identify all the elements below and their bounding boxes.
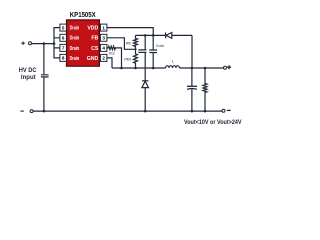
node dot CS at rail	[120, 67, 123, 70]
wire cap1 bottom lead	[144, 53, 146, 68]
svg-text:8: 8	[62, 56, 65, 61]
pin 2 box	[100, 54, 107, 61]
wire cap1 top lead	[144, 35, 146, 49]
pin 6 box	[60, 34, 67, 41]
wire stubs to left pins	[54, 28, 60, 58]
op-amp U1 chip body KP1505X	[67, 20, 100, 66]
svg-text:VDD: VDD	[87, 26, 98, 32]
inductor L	[166, 66, 180, 68]
capacitor C1	[138, 50, 146, 53]
pin 5 box	[60, 24, 67, 31]
node plus output terminal	[224, 65, 232, 69]
node minus output terminal	[222, 109, 231, 112]
pin 4 box	[100, 44, 107, 51]
svg-text:HV DC: HV DC	[19, 68, 37, 74]
svg-text:2: 2	[102, 56, 105, 61]
node dot FB junction	[134, 48, 136, 50]
pin 1 box	[100, 24, 107, 31]
svg-text:Rfb: Rfb	[126, 41, 131, 45]
resistor Rfb2	[134, 49, 138, 68]
wire switch rail y35.4	[135, 35, 192, 68]
svg-text:7: 7	[62, 46, 65, 51]
svg-text:5: 5	[62, 25, 65, 30]
node bottom bus junction dots	[43, 110, 46, 113]
svg-text:GND: GND	[87, 56, 99, 62]
svg-text:6: 6	[62, 36, 65, 41]
wire input vertical down	[43, 44, 45, 112]
svg-text:Drain: Drain	[70, 46, 80, 52]
node dot Rfb2 at rail	[134, 67, 137, 70]
svg-text:Cvdd: Cvdd	[156, 44, 164, 48]
svg-text:KP1505X: KP1505X	[70, 12, 96, 19]
svg-text:Drain: Drain	[70, 56, 80, 62]
node bus junction dot	[53, 42, 56, 45]
svg-text:Input: Input	[21, 75, 36, 81]
diode D2 freewheel	[142, 81, 149, 88]
pin 8 box	[60, 54, 67, 61]
node plus input terminal	[21, 42, 31, 45]
wire pin1 VDD to Cvdd	[107, 28, 154, 50]
wire output cap branch	[191, 68, 193, 111]
wire input plus to left bus	[32, 43, 54, 45]
wire left pin bus vertical	[53, 27, 55, 59]
wire D2 branch	[144, 68, 146, 111]
node dots on output rail	[191, 67, 194, 70]
svg-text:CS: CS	[91, 46, 99, 52]
label HV DC Input	[19, 68, 37, 81]
svg-text:Drain: Drain	[70, 26, 80, 32]
svg-text:3: 3	[102, 36, 105, 41]
node junction dot VDD rail crossing	[152, 34, 155, 37]
node minus input terminal	[20, 110, 33, 113]
svg-text:FB: FB	[91, 36, 98, 42]
svg-text:Drain: Drain	[70, 36, 80, 42]
resistor Rload	[203, 68, 207, 111]
svg-text:4: 4	[102, 46, 105, 51]
node dot cap1 top	[144, 34, 147, 37]
capacitor Cvdd	[149, 50, 157, 53]
svg-text:Vout<10V or Vout>24V: Vout<10V or Vout>24V	[184, 119, 242, 126]
resistor Rcs	[107, 46, 122, 68]
wire Cvdd bottom lead	[152, 53, 154, 68]
wire bottom bus	[33, 110, 222, 112]
svg-text:L: L	[172, 59, 175, 64]
wire GND pin down	[107, 58, 112, 68]
wire FB pin to divider	[107, 38, 136, 50]
pin 3 box	[100, 34, 107, 41]
svg-text:Rcs: Rcs	[109, 51, 115, 55]
node dot Cvdd at rail	[152, 67, 155, 70]
diode D1	[166, 33, 172, 39]
pin 7 box	[60, 44, 67, 51]
node input junction A	[43, 42, 46, 45]
svg-text:Rfb2: Rfb2	[124, 58, 131, 62]
resistor Rfb1	[134, 35, 138, 49]
wire output rail y68	[112, 67, 224, 69]
capacitor Cout	[187, 85, 197, 87]
svg-text:1: 1	[102, 25, 105, 30]
capacitor Cin	[41, 75, 49, 77]
